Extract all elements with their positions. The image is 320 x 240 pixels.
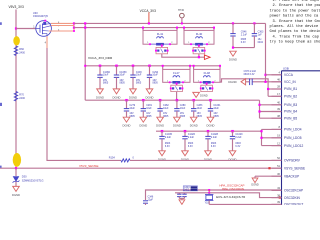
- svg-text:DGND: DGND: [173, 124, 181, 128]
- junction gate wire: [15, 27, 17, 29]
- wire OSC32KIN: [175, 193, 282, 198]
- wire source to OVPGDRV: [47, 48, 121, 160]
- junction PVIN_B3: [258, 104, 260, 106]
- pin 17 PVIN_B2: [272, 95, 282, 97]
- svg-text:planes. All the device G: planes. All the device G: [270, 24, 320, 29]
- junction crystal cap net: [208, 189, 210, 191]
- junction PVIN_B1: [267, 88, 269, 90]
- svg-text:6.3V: 6.3V: [165, 145, 170, 148]
- bead element FL48: [201, 81, 213, 83]
- capacitor C344: [184, 193, 186, 194]
- bead element FL41: [150, 43, 170, 45]
- capacitor C281: [142, 100, 144, 108]
- svg-text:VCCA_3V3_DDR: VCCA_3V3_DDR: [88, 56, 113, 60]
- component below FL41: [161, 44, 163, 47]
- svg-text:0805: 0805: [103, 82, 109, 85]
- svg-text:FL47: FL47: [173, 71, 180, 75]
- component below FL47: [176, 82, 178, 85]
- svg-text:2400: 2400: [19, 97, 25, 100]
- capacitor C1060: [99, 66, 101, 75]
- offpage connector arrow: [204, 55, 210, 60]
- junction PVIN_LDO5: [260, 137, 262, 139]
- junction drop second rail: [84, 27, 86, 29]
- wire drain tie: [73, 23, 75, 31]
- svg-text:1uF: 1uF: [258, 33, 263, 36]
- svg-text:PVIN_LDO5: PVIN_LDO5: [284, 136, 302, 140]
- wire FL47 to PVIN rail: [176, 92, 178, 101]
- junction C1061: [209, 99, 212, 102]
- wire VBACKUP: [255, 175, 282, 177]
- wire rail PVIN_LDO: [156, 130, 262, 132]
- wire R154 to OVPGDRV: [130, 159, 282, 161]
- pin 38 PVIN_B5: [272, 117, 282, 119]
- svg-text:PVIN_B2: PVIN_B2: [284, 95, 297, 99]
- svg-text:2.2uF: 2.2uF: [211, 136, 218, 139]
- svg-text:6.3V: 6.3V: [188, 145, 193, 148]
- wire OSC32KCAP: [146, 190, 282, 200]
- pin dot bead FL41 right: [169, 43, 171, 45]
- svg-text:10uF: 10uF: [103, 74, 109, 77]
- junction C281: [142, 99, 145, 102]
- svg-text:CSD16407Q5: CSD16407Q5: [33, 15, 49, 18]
- capacitor C294: [149, 66, 151, 75]
- svg-text:VCC_IN: VCC_IN: [284, 80, 296, 84]
- svg-text:OSC32KIN: OSC32KIN: [284, 196, 300, 200]
- wire cap join: [179, 197, 184, 199]
- wire rail PVIN_B: [85, 99, 259, 101]
- svg-text:DGND: DGND: [200, 94, 208, 98]
- bead glyph FL41: [157, 37, 164, 39]
- svg-text:12pF: 12pF: [148, 198, 154, 201]
- svg-text:DGND: DGND: [146, 95, 154, 99]
- pin 36 VBACKUP: [272, 175, 282, 177]
- svg-text:10uF: 10uF: [180, 107, 186, 110]
- highlight ellipse over R60 wire: [13, 36, 20, 45]
- page edge mark top: [0, 22, 2, 25]
- svg-text:PVIN_B4: PVIN_B4: [284, 110, 297, 114]
- svg-text:U3B: U3B: [283, 67, 289, 71]
- junction C282: [159, 99, 162, 102]
- wire drop to DDR rail: [84, 23, 86, 65]
- svg-text:DGND: DGND: [228, 80, 236, 84]
- wire VCCA_3V3 label drop: [148, 12, 150, 23]
- label C343 10pF 0402 50V: [183, 186, 197, 191]
- wire drop DDR to PVIN rail: [84, 66, 86, 100]
- wire VCC_IN stub: [266, 81, 282, 83]
- ground crystal caps: [179, 200, 185, 205]
- ground C1029: [229, 151, 236, 156]
- pin mark drain top: [44, 20, 46, 22]
- op-amp U3B outline: [282, 70, 320, 72]
- svg-text:10uF: 10uF: [213, 107, 219, 110]
- ferrite bead FL48 outline: [193, 66, 195, 70]
- svg-text:VCCA: VCCA: [284, 73, 294, 77]
- capacitor C973: [252, 81, 265, 83]
- svg-text:ECS-.327-9-34QCS-TR: ECS-.327-9-34QCS-TR: [216, 195, 245, 199]
- svg-text:4. Trace from the cap t: 4. Trace from the cap t: [273, 34, 320, 39]
- ground C1059: [113, 89, 120, 94]
- pin 19 PVIN_LDO5: [272, 137, 282, 139]
- pin dot bead FL48 right: [212, 81, 214, 83]
- ground C279: [123, 117, 130, 122]
- svg-text:DGND: DGND: [113, 95, 121, 99]
- svg-text:DGND: DGND: [229, 58, 237, 62]
- svg-text:SZMM5Z10VST1G: SZMM5Z10VST1G: [22, 179, 44, 183]
- resistor R154: [121, 159, 130, 162]
- ground C281: [140, 117, 147, 122]
- svg-text:3. Ensure that the Gnd: 3. Ensure that the Gnd: [273, 19, 320, 24]
- pin dot bead FL48 left: [200, 81, 202, 83]
- resistor R60: [14, 46, 17, 56]
- pin mark OSC32KIN: [279, 197, 281, 199]
- ground C294: [146, 89, 153, 94]
- wire VSYS_SENSE: [0, 167, 282, 169]
- svg-text:try to keep them as sho: try to keep them as sho: [270, 40, 320, 45]
- ground C973 left arrow: [241, 79, 246, 85]
- wire drain stub top: [51, 22, 74, 24]
- junction C1045: [161, 130, 164, 133]
- page edge mark middle: [0, 103, 2, 106]
- svg-text:VBACKUP: VBACKUP: [284, 174, 299, 178]
- wire V5V3_3V3 vertical: [15, 10, 17, 169]
- diode D30 SZMM5Z10VST1G: [15, 168, 17, 176]
- junction C283: [192, 99, 195, 102]
- svg-text:DGND: DGND: [139, 124, 147, 128]
- pin 38 OSC32KIN: [272, 197, 282, 199]
- wire PVIN_LDO12 stub: [262, 145, 282, 147]
- testpoint TP30: [180, 13, 185, 18]
- pin 28 PVIN_B1: [272, 88, 282, 90]
- wire PVIN_LDO4 stub: [262, 128, 282, 130]
- capacitor C343: [178, 193, 180, 194]
- junction FL41 left: [142, 27, 144, 29]
- pin 52 OVPGDRV: [272, 159, 282, 161]
- svg-text:0805: 0805: [163, 115, 169, 118]
- junction TP30: [181, 22, 183, 24]
- svg-text:PVIN_LDO12: PVIN_LDO12: [284, 144, 304, 148]
- svg-text:OSC32KCAP: OSC32KCAP: [284, 189, 303, 193]
- transistor U30 CSD16407Q5: [36, 21, 52, 37]
- svg-text:VSYS_SENSE: VSYS_SENSE: [284, 166, 305, 170]
- svg-text:6.3V: 6.3V: [235, 145, 240, 148]
- capacitor C1029: [232, 131, 234, 136]
- svg-text:DGND: DGND: [96, 95, 104, 99]
- junction C1059: [115, 65, 118, 68]
- junction C1060: [99, 65, 102, 68]
- svg-text:0805: 0805: [119, 82, 125, 85]
- capacitor C945: [232, 22, 234, 24]
- svg-text:0805: 0805: [146, 115, 152, 118]
- junction PVIN_B4: [258, 110, 260, 112]
- wire OSC32KOUT: [209, 203, 281, 205]
- ground C1061: [207, 117, 214, 122]
- ground C1028: [205, 151, 212, 156]
- junction C280: [176, 99, 179, 102]
- pin 51 VSYS_SENSE: [272, 167, 282, 169]
- wire PVIN_LDO5 stub: [262, 137, 282, 139]
- wire source down: [46, 36, 48, 48]
- svg-text:R154: R154: [109, 156, 116, 159]
- capacitor C1045: [161, 131, 163, 136]
- svg-text:10uF: 10uF: [136, 74, 142, 77]
- ground below FL48: [193, 92, 200, 97]
- svg-text:PVIN_LDO4: PVIN_LDO4: [284, 128, 302, 132]
- wire rail second: [74, 27, 214, 29]
- wire PVIN_B1 stub: [268, 88, 281, 90]
- pin dot bead FL40 left: [190, 43, 192, 45]
- page edge mark lower: [0, 166, 2, 168]
- svg-text:DGND: DGND: [156, 124, 164, 128]
- ground C282: [157, 117, 164, 122]
- junction C293: [132, 65, 135, 68]
- pin 46 VCC_IN: [272, 81, 282, 83]
- svg-text:R70: R70: [19, 93, 24, 96]
- svg-text:6.3V: 6.3V: [211, 145, 216, 148]
- pin 39 OSC32KOUT: [272, 203, 282, 205]
- svg-text:OSC32KOUT: OSC32KOUT: [284, 203, 303, 205]
- ground C945: [230, 51, 237, 56]
- svg-text:10uF: 10uF: [152, 74, 158, 77]
- junction VCC_IN: [264, 81, 266, 83]
- ground C1026: [182, 151, 189, 156]
- junction DDR corner: [84, 65, 86, 67]
- junction FL47 right: [189, 65, 191, 67]
- crystal Y10: [208, 193, 210, 195]
- svg-text:0805: 0805: [152, 82, 158, 85]
- capacitor C279: [126, 100, 128, 108]
- wire VCCA stub: [266, 74, 282, 76]
- capacitor C1026: [184, 131, 186, 136]
- svg-text:Y10: Y10: [205, 202, 210, 204]
- svg-text:10uF: 10uF: [146, 107, 152, 110]
- svg-text:0805: 0805: [180, 115, 186, 118]
- svg-text:2.2uF: 2.2uF: [241, 33, 248, 36]
- capacitor C280: [176, 100, 178, 108]
- svg-text:PVIN_B5: PVIN_B5: [284, 116, 297, 120]
- capacitor C1028: [207, 131, 209, 136]
- wire rail2 corner: [259, 100, 261, 118]
- junction FL40 tie: [198, 56, 200, 58]
- ground C1060: [97, 89, 104, 94]
- svg-text:FL48: FL48: [204, 71, 211, 75]
- svg-text:6.3V: 6.3V: [241, 41, 246, 44]
- svg-text:10uF: 10uF: [119, 74, 125, 77]
- svg-text:0805: 0805: [129, 115, 135, 118]
- junction FL40 left: [183, 27, 185, 29]
- ground C280: [174, 117, 181, 122]
- svg-text:V5V3_SENSE: V5V3_SENSE: [79, 164, 98, 168]
- junction FL41 right: [176, 27, 178, 29]
- wire PVIN_B5 stub: [260, 117, 282, 119]
- capacitor C946: [253, 22, 255, 24]
- junction drain mid: [73, 27, 75, 29]
- svg-text:2.2uF: 2.2uF: [188, 136, 195, 139]
- capacitor C283: [193, 100, 195, 108]
- svg-text:10uF: 10uF: [163, 107, 169, 110]
- wire FL40 to connector: [199, 54, 205, 57]
- pin dot bead FL41 left: [149, 43, 151, 45]
- wire rail VCCA_3V3 top: [74, 22, 266, 24]
- junction VCCA_3V3: [148, 22, 150, 24]
- wire PVIN_B2 stub: [268, 95, 281, 97]
- svg-text:OVPGDRV: OVPGDRV: [284, 159, 301, 163]
- svg-text:0805: 0805: [213, 115, 219, 118]
- wire rail end corner to VCCA: [265, 23, 267, 81]
- wire FL41 tie: [162, 54, 199, 57]
- svg-text:2400: 2400: [19, 51, 25, 54]
- junction drain bottom: [73, 30, 75, 32]
- svg-text:R60: R60: [19, 48, 24, 51]
- junction C279: [125, 99, 128, 102]
- wire PVIN_B4 stub: [260, 111, 282, 113]
- svg-text:10uF: 10uF: [129, 107, 135, 110]
- pin 39 PVIN_B4: [272, 111, 282, 113]
- svg-text:10uF: 10uF: [197, 107, 203, 110]
- capacitor C1061: [210, 100, 212, 108]
- svg-text:0603 6.3V: 0603 6.3V: [244, 73, 255, 76]
- junction C1028: [207, 130, 210, 133]
- pin dot bead FL47 left: [169, 81, 171, 83]
- svg-text:2.2uF: 2.2uF: [165, 136, 172, 139]
- capacitor C346: [143, 200, 148, 202]
- highlight ellipse over sense junction: [13, 153, 21, 167]
- svg-text:DGND: DGND: [129, 95, 137, 99]
- svg-text:PVIN_B3: PVIN_B3: [284, 103, 297, 107]
- ferrite bead FL47 outline: [162, 66, 164, 70]
- wire cap bottoms tie: [233, 47, 254, 49]
- bead element FL47: [170, 81, 183, 83]
- wire crystal to cap net: [208, 190, 210, 193]
- junction FL47 left: [162, 65, 164, 67]
- junction VSYS sense: [15, 167, 17, 169]
- svg-text:1. Place all the caps a: 1. Place all the caps a: [273, 0, 320, 3]
- junction crystal: [208, 192, 210, 194]
- junction VCCA: [264, 74, 266, 76]
- svg-text:HPA_OSC32KIN: HPA_OSC32KIN: [222, 187, 244, 191]
- ground C1045: [159, 151, 166, 156]
- svg-text:FL40: FL40: [196, 32, 203, 36]
- junction FL48 right: [219, 65, 221, 67]
- svg-text:0402: 0402: [184, 190, 190, 192]
- wire rail3 corner: [261, 129, 263, 145]
- svg-text:0805: 0805: [197, 115, 203, 118]
- capacitor C282: [159, 100, 161, 108]
- wire rail VCCA_3V3_DDR: [85, 65, 220, 67]
- bead glyph FL40: [196, 37, 203, 39]
- junction C294: [148, 65, 151, 68]
- junction FL40 right: [213, 27, 215, 29]
- junction FL48 left: [193, 65, 195, 67]
- junction tie: [232, 47, 234, 49]
- resistor R70: [14, 92, 17, 102]
- pin 4 VCCA: [272, 74, 282, 76]
- svg-text:0402: 0402: [258, 41, 264, 44]
- ground VBACKUP: [252, 178, 258, 183]
- pin mark VSYS_SENSE: [268, 167, 270, 169]
- component below FL40: [198, 44, 200, 47]
- component below FL48: [206, 82, 208, 85]
- wire PVIN_B3 stub: [260, 104, 282, 106]
- svg-text:DGND: DGND: [251, 183, 259, 186]
- svg-text:V5V3_3V3: V5V3_3V3: [9, 5, 24, 9]
- svg-text:DGND: DGND: [207, 124, 215, 128]
- wire drain stub mid: [51, 25, 74, 27]
- pin 40 PVIN_B3: [272, 104, 282, 106]
- wire FL48 to PVIN_B1 B2: [220, 79, 268, 97]
- svg-text:DGND: DGND: [123, 124, 131, 128]
- ground C283: [190, 117, 197, 122]
- svg-text:PVIN_B1: PVIN_B1: [284, 87, 297, 91]
- svg-text:FL41: FL41: [157, 32, 164, 36]
- capacitor C1059: [116, 66, 118, 75]
- junction drop top rail: [84, 22, 86, 24]
- bead element FL40: [191, 43, 207, 45]
- junction drain top: [73, 22, 75, 24]
- svg-text:2.2uF: 2.2uF: [235, 136, 242, 139]
- ferrite bead FL41 outline: [142, 28, 144, 31]
- svg-text:DGND: DGND: [190, 124, 198, 128]
- pin 43 OSC32KCAP: [272, 189, 282, 191]
- bead glyph FL48: [203, 76, 210, 78]
- pin dot bead FL47 right: [182, 81, 184, 83]
- svg-text:0805: 0805: [136, 82, 142, 85]
- svg-text:trace to the power ball: trace to the power ball: [270, 8, 320, 13]
- ground C293: [130, 89, 137, 94]
- ferrite bead FL40 outline: [183, 28, 185, 31]
- bead glyph FL47: [173, 76, 180, 78]
- svg-text:TP30: TP30: [178, 9, 185, 12]
- wire drain stub bottom: [49, 30, 74, 32]
- pin dot bead FL40 right: [206, 43, 208, 45]
- svg-text:VCCA_3V3: VCCA_3V3: [140, 9, 157, 13]
- svg-text:D30: D30: [22, 174, 27, 178]
- wire gate: [16, 28, 36, 30]
- junction C1026: [184, 130, 187, 133]
- ground D30: [13, 186, 20, 191]
- svg-text:Gnd planes to the devic: Gnd planes to the devic: [270, 29, 320, 34]
- junction rail3: [260, 130, 262, 132]
- junction C1029: [231, 130, 234, 133]
- svg-text:2. Ensure that the pow: 2. Ensure that the pow: [273, 3, 320, 8]
- svg-text:power balls and the ca: power balls and the ca: [270, 14, 319, 19]
- pin 8 PVIN_LDO4: [272, 128, 282, 130]
- pin 12 PVIN_LDO12: [272, 145, 282, 147]
- svg-text:DGND: DGND: [12, 193, 20, 197]
- capacitor C293: [132, 66, 134, 75]
